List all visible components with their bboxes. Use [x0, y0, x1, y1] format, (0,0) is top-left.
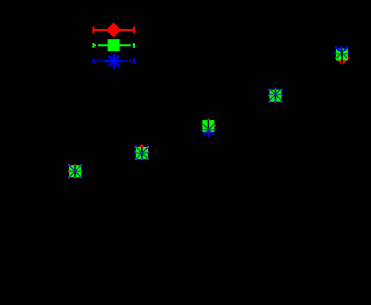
green square marker [108, 39, 120, 51]
red diamond marker [335, 50, 350, 65]
legend entry 3: blue asterisk series, dotted error bar sample [93, 53, 134, 69]
corner dots (jpeg chroma bleed) [68, 164, 82, 178]
red diamond marker [201, 118, 216, 133]
green square marker [69, 165, 81, 177]
asterisk arms over square (jpeg-darkened) [134, 147, 149, 159]
asterisk arms over square (jpeg-darkened) [201, 120, 216, 135]
green square marker [270, 90, 282, 102]
corner dots (jpeg chroma bleed) [135, 146, 149, 160]
data point 5: red diamond + green square + blue asterisk (offset stack) [334, 46, 350, 65]
left cap [92, 43, 94, 48]
legend entry 1: red diamond series, solid error bar sample [93, 23, 134, 38]
blue asterisk bright wings (over square top) [335, 47, 340, 51]
blue dotted sample line [93, 60, 134, 62]
data point 1: red diamond + green square + blue asterisk [68, 164, 83, 179]
green square marker [136, 147, 148, 159]
left cap [92, 58, 94, 63]
red diamond marker [106, 23, 121, 38]
asterisk arms over square (jpeg-darkened) [334, 48, 349, 59]
right cap [133, 27, 135, 34]
corner dots (jpeg chroma bleed) [269, 89, 283, 103]
right cap [133, 58, 135, 63]
red diamond marker [68, 164, 83, 179]
right cap [133, 43, 135, 48]
green dashed sample line [93, 44, 134, 46]
left cap [92, 27, 94, 34]
asterisk arms over square (jpeg-darkened) [68, 165, 83, 177]
red diamond marker [268, 88, 283, 103]
red sample line [93, 29, 134, 31]
blue asterisk marker [106, 53, 122, 69]
blue asterisk marker (bright, drawn first) [201, 122, 216, 137]
blue asterisk marker (bright, drawn first) [268, 87, 283, 102]
green square marker [336, 48, 348, 60]
data point 2: red diamond + green square + blue asterisk [134, 144, 149, 160]
blue asterisk marker (bright, drawn first) [68, 164, 83, 179]
data point 3: red diamond + green square + blue asterisk [201, 118, 217, 137]
asterisk arms over square (jpeg-darkened) [268, 89, 283, 102]
legend entry 2: green square series, dashed error bar sample [93, 39, 134, 51]
data point 4: red diamond + green square + blue asterisk [268, 87, 283, 103]
dark vertical stripe through square and diamond [341, 50, 343, 65]
blue asterisk bright nubs (under) [334, 52, 349, 54]
red diamond marker [134, 144, 149, 159]
green square marker [202, 120, 214, 132]
blue asterisk marker (bright, drawn first) [134, 146, 149, 161]
